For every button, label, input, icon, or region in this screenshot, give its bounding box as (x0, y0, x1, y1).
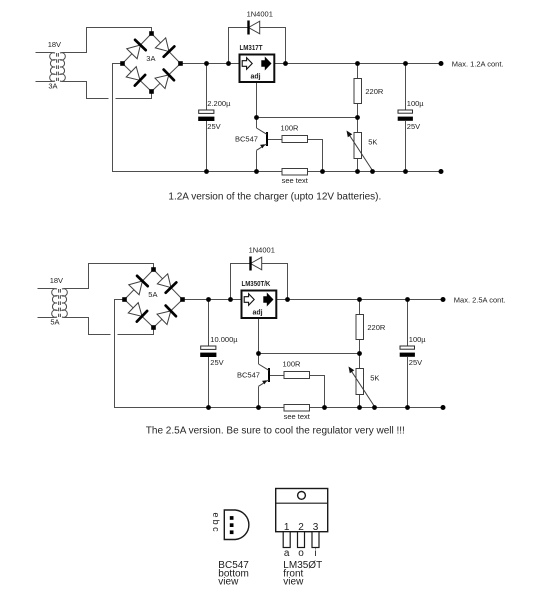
svg-text:LM350T/K: LM350T/K (242, 281, 271, 288)
svg-text:e: e (211, 512, 221, 517)
svg-text:100µ: 100µ (409, 335, 427, 344)
svg-text:100R: 100R (281, 123, 300, 132)
svg-text:25V: 25V (210, 358, 223, 367)
svg-text:i: i (314, 548, 316, 559)
svg-text:3A: 3A (48, 82, 57, 91)
svg-text:BC547: BC547 (237, 371, 260, 380)
svg-text:adj: adj (251, 74, 261, 81)
svg-text:2.200µ: 2.200µ (207, 99, 231, 108)
svg-text:100R: 100R (283, 359, 302, 368)
svg-text:BC547: BC547 (235, 135, 258, 144)
svg-text:LM317T: LM317T (240, 45, 264, 52)
svg-text:The 2.5A version. Be sure to c: The 2.5A version. Be sure to cool the re… (146, 425, 405, 436)
svg-text:220R: 220R (365, 87, 384, 96)
svg-text:100µ: 100µ (407, 99, 425, 108)
svg-text:25V: 25V (407, 122, 420, 131)
svg-text:3A: 3A (146, 54, 155, 63)
svg-text:Max. 1.2A cont.: Max. 1.2A cont. (452, 59, 504, 68)
svg-text:5K: 5K (368, 138, 377, 147)
svg-text:5A: 5A (50, 318, 59, 327)
svg-text:220R: 220R (367, 323, 386, 332)
svg-text:18V: 18V (50, 276, 63, 285)
svg-text:o: o (298, 548, 304, 559)
svg-text:adj: adj (253, 310, 263, 317)
svg-text:25V: 25V (207, 122, 220, 131)
svg-text:25V: 25V (409, 358, 422, 367)
svg-text:1N4001: 1N4001 (247, 10, 273, 19)
svg-text:1: 1 (284, 522, 290, 533)
svg-text:b: b (211, 520, 221, 525)
svg-text:5A: 5A (148, 290, 157, 299)
svg-text:see text: see text (282, 176, 309, 185)
svg-text:view: view (218, 577, 239, 588)
svg-text:1N4001: 1N4001 (249, 246, 275, 255)
svg-text:3: 3 (313, 522, 319, 533)
svg-text:10.000µ: 10.000µ (210, 335, 238, 344)
svg-text:2: 2 (298, 522, 304, 533)
svg-text:18V: 18V (48, 40, 61, 49)
svg-text:5K: 5K (370, 374, 379, 383)
svg-text:Max. 2.5A cont.: Max. 2.5A cont. (454, 295, 506, 304)
svg-text:a: a (284, 548, 290, 559)
svg-text:see text: see text (284, 412, 311, 421)
svg-text:view: view (283, 577, 304, 588)
svg-text:1.2A version of the charger (u: 1.2A version of the charger (upto 12V ba… (168, 191, 381, 202)
svg-text:c: c (211, 527, 221, 532)
